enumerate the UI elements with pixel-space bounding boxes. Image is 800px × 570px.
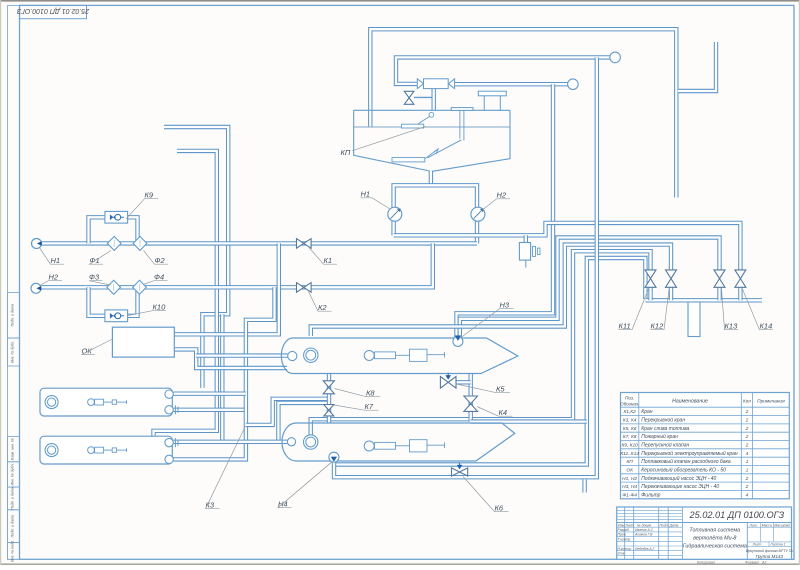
svg-text:А3: А3 (761, 561, 766, 565)
external fuel tank upper fuel sensor (88, 399, 95, 406)
upper tank port 2 (165, 406, 173, 414)
tank-1 filler double circle (304, 348, 318, 362)
filter Ф4 (133, 280, 147, 294)
svg-text:Инв. № дубл.: Инв. № дубл. (11, 463, 15, 485)
corner stamp box (20, 5, 87, 18)
wire refuel manifold (645, 298, 762, 302)
svg-text:К7, К8: К7, К8 (623, 434, 637, 440)
bypass valve К10 (105, 310, 128, 322)
svg-text:1: 1 (746, 467, 749, 473)
svg-text:Подп. и дата: Подп. и дата (11, 304, 15, 327)
tank-1 fuel sensor (364, 351, 374, 361)
svg-text:К11..К14: К11..К14 (620, 451, 639, 457)
wire tank vent line with drain stub (370, 29, 676, 197)
wire consumption tank outlet (429, 171, 433, 185)
svg-text:Н2: Н2 (497, 191, 507, 200)
svg-text:Н2: Н2 (49, 273, 59, 282)
svg-text:Листов 1: Листов 1 (769, 543, 785, 547)
svg-text:К9: К9 (145, 191, 154, 200)
external fuel tank upper (40, 388, 172, 416)
svg-text:К7: К7 (365, 402, 374, 411)
svg-text:Формат: Формат (745, 561, 759, 565)
svg-text:Взам. инв. №: Взам. инв. № (11, 438, 15, 460)
wire bypass loop K9 (89, 217, 138, 243)
title block (617, 507, 792, 559)
wire engine-2 feed hook to lower external tank (154, 151, 217, 436)
svg-text:КП: КП (341, 148, 351, 157)
filter Ф1 (107, 236, 121, 250)
svg-text:Н1: Н1 (51, 256, 61, 265)
svg-text:Примечания: Примечания (757, 399, 785, 405)
svg-text:Т.контр.: Т.контр. (618, 537, 632, 541)
tank hatch (451, 108, 473, 111)
wire branch to lower tank port line (220, 314, 224, 440)
lower tank port fitting (174, 438, 176, 447)
vent port circle 1 (610, 52, 621, 63)
wire drain valve K5 stub (456, 380, 471, 384)
wire vent mast hook (678, 42, 716, 91)
wire tank-2 filler line to valve K11 (311, 251, 651, 436)
svg-text:Фильтр: Фильтр (641, 492, 660, 498)
wire tank-1 filler line to valve K12 (311, 245, 671, 336)
svg-text:КП: КП (626, 459, 633, 465)
wire valve K4 line to drain riser (471, 419, 587, 423)
wire engine-1 feed hook to upper external tank (164, 127, 228, 388)
svg-text:Перепускной клапан: Перепускной клапан (641, 442, 689, 449)
valve K7 (324, 405, 334, 411)
wire valve K14 stem (738, 287, 742, 300)
upper tank port 1 (165, 390, 173, 398)
svg-text:Пров.: Пров. (618, 533, 627, 537)
svg-text:К3, К4: К3, К4 (623, 418, 637, 424)
svg-text:К2: К2 (318, 303, 327, 312)
svg-text:2: 2 (745, 434, 749, 440)
svg-text:Обознач.: Обознач. (620, 401, 639, 406)
tank internal pickup pipe (459, 110, 461, 138)
valve K1 (297, 239, 304, 249)
svg-text:Иванов А.С: Иванов А.С (635, 528, 654, 532)
svg-text:Перекачивающие насос ЭЦН - 40: Перекачивающие насос ЭЦН - 40 (641, 484, 719, 490)
pump N4 port (329, 452, 339, 462)
valve K4 (464, 396, 478, 404)
service tank 1 (upper bullet tank) (281, 338, 517, 374)
refuel port (688, 302, 700, 337)
svg-text:Ф2: Ф2 (155, 256, 166, 265)
svg-text:4: 4 (746, 451, 749, 457)
pump N3 port (453, 336, 463, 346)
wire pump N3 riser outer to float valve line (457, 84, 554, 339)
filler neck (478, 91, 506, 96)
svg-text:Н1: Н1 (361, 190, 371, 199)
svg-text:Масса: Масса (762, 523, 772, 527)
wire upper tank port-2 line (173, 408, 246, 412)
svg-text:Перекрывной кран: Перекрывной кран (641, 417, 685, 424)
wire float-valve stem into tank (432, 89, 436, 111)
flowmeter sensor (519, 243, 530, 261)
wire branch B below valve K7 (278, 403, 329, 443)
svg-text:Группа М143: Группа М143 (756, 554, 784, 559)
svg-text:Гидравлическая система: Гидравлическая система (683, 544, 747, 550)
wire valve K11 stem (648, 287, 652, 300)
svg-text:вертолёта Ми-8: вертолёта Ми-8 (693, 536, 736, 542)
svg-text:Дата: Дата (669, 523, 679, 527)
svg-text:Поз.: Поз. (625, 396, 634, 401)
svg-text:2: 2 (745, 476, 749, 482)
float valve KP float 2 (392, 158, 425, 162)
svg-text:Ф1: Ф1 (90, 256, 100, 265)
svg-text:Ф1-Ф4: Ф1-Ф4 (622, 492, 637, 498)
svg-text:Ф4: Ф4 (154, 273, 164, 282)
valve K2 (297, 283, 304, 293)
valve K8 (323, 381, 334, 388)
svg-text:Изм.: Изм. (618, 523, 625, 527)
service tank 2 (lower bullet tank) (282, 423, 515, 461)
kerosene heater OK (112, 327, 174, 357)
svg-text:К5, К6: К5, К6 (623, 426, 637, 432)
tank-2 filler double circle (304, 435, 318, 449)
svg-text:Лебедев А.Г: Лебедев А.Г (634, 547, 656, 551)
svg-text:Перекрывной электроуправляемый: Перекрывной электроуправляемый кран (641, 450, 738, 457)
svg-text:К9, К10: К9, К10 (621, 443, 638, 449)
svg-text:К10: К10 (153, 303, 167, 312)
svg-text:К12: К12 (651, 322, 665, 331)
svg-text:К1,К2: К1,К2 (623, 409, 636, 415)
svg-text:Н3: Н3 (500, 301, 510, 310)
svg-text:Н3, Н4: Н3, Н4 (622, 484, 637, 490)
valve К12 (666, 270, 677, 279)
svg-text:Пожарный кран: Пожарный кран (641, 433, 678, 440)
svg-text:Кран слива топлива: Кран слива топлива (641, 426, 689, 432)
consumption tank (354, 110, 430, 171)
wire fire valve stem K8-K7 (327, 374, 331, 423)
svg-text:Кол: Кол (743, 399, 751, 404)
svg-text:Топливная система: Топливная система (689, 528, 740, 534)
external fuel tank lower (40, 436, 172, 464)
svg-text:Лист: Лист (625, 523, 635, 527)
vent port circle 2 (568, 79, 579, 90)
wire upper tank port-1 line (173, 392, 246, 396)
wire booster pump loop (394, 185, 477, 243)
svg-text:Инв. № дубл.: Инв. № дубл. (11, 341, 15, 363)
wire bypass loop K10 (89, 287, 138, 316)
pump H2 left (31, 283, 41, 293)
svg-text:К4: К4 (499, 408, 508, 417)
svg-text:К11: К11 (619, 322, 631, 331)
wire vent valve stub (414, 96, 432, 98)
svg-text:К14: К14 (760, 322, 773, 331)
wire drain line R1 to refuel manifold riser (334, 258, 645, 465)
wire engine feed line H1 (42, 241, 477, 245)
lower tank port 1 (165, 438, 173, 446)
svg-text:Подп. и дата: Подп. и дата (11, 487, 15, 510)
svg-text:Поплавковый клапан расходного: Поплавковый клапан расходного бака (641, 458, 731, 465)
wire pump N4 drain line R2 to vent line (334, 57, 597, 477)
svg-text:К5: К5 (496, 385, 505, 394)
upper tank port fitting (174, 405, 176, 414)
valve К14 (735, 270, 746, 279)
svg-text:Ф3: Ф3 (89, 273, 100, 282)
wire float-valve supply to vent port 1 (396, 57, 610, 84)
wire heater OK feed from line H1 (174, 243, 278, 334)
pump H1 on loop (388, 207, 402, 221)
pump H1 left (32, 239, 42, 249)
svg-text:1: 1 (746, 459, 749, 465)
svg-text:Иркутский филиал МГТУ ГА: Иркутский филиал МГТУ ГА (746, 549, 793, 553)
svg-text:2: 2 (745, 426, 749, 432)
svg-text:Акимов Г.В: Акимов Г.В (634, 533, 653, 537)
drain valve K6 (452, 468, 460, 476)
svg-text:25.02.01 ДП 0100.ОГЗ: 25.02.01 ДП 0100.ОГЗ (688, 510, 784, 520)
svg-text:4: 4 (746, 492, 749, 498)
svg-text:2: 2 (745, 443, 749, 449)
svg-text:Наименование: Наименование (672, 399, 708, 405)
left margin boxes (7, 293, 19, 338)
svg-text:Масштаб: Масштаб (774, 523, 790, 527)
svg-text:Подп. и дата: Подп. и дата (11, 515, 15, 538)
svg-text:Лит.: Лит. (749, 523, 758, 527)
wire transfer link to fire-valve stem (246, 399, 329, 425)
external fuel tank lower fuel sensor (88, 447, 95, 454)
svg-text:2: 2 (745, 418, 749, 424)
tank-2 fuel sensor (364, 441, 374, 451)
filter Ф2 (133, 236, 147, 250)
pump H2 on loop (471, 207, 485, 221)
svg-text:2: 2 (745, 484, 749, 490)
wire pump N3 riser inner to valve K13 (460, 238, 720, 339)
svg-text:Подп.: Подп. (660, 523, 669, 527)
wire heater OK return line (174, 349, 287, 368)
filter Ф3 (107, 280, 121, 294)
svg-text:К13: К13 (725, 322, 739, 331)
wire valve K12 stem (669, 287, 673, 300)
svg-text:Подкачивающий насос ЭЦН - 40: Подкачивающий насос ЭЦН - 40 (641, 475, 716, 482)
wire line H2 branch down to lower tank port (173, 287, 275, 459)
svg-text:К8: К8 (366, 389, 375, 398)
wire engine feed line H2 with crossfeed (41, 243, 433, 287)
wire valve K4 stem (469, 374, 473, 422)
valve К11 (645, 270, 656, 279)
tank-2 port circle (287, 438, 295, 446)
svg-text:Разраб.: Разраб. (618, 528, 630, 532)
svg-text:К1: К1 (324, 256, 333, 265)
float valve KP actuator (424, 79, 449, 89)
svg-text:Н.контр.: Н.контр. (618, 547, 632, 551)
svg-text:Кран: Кран (641, 409, 653, 415)
parts list table (621, 393, 790, 499)
wire drain stub below R2 (582, 479, 586, 492)
bypass valve К9 (105, 211, 128, 223)
float valve KP float 1 (429, 112, 434, 117)
tank-1 port circle (288, 351, 297, 360)
svg-text:Лист: Лист (752, 543, 762, 547)
svg-text:Керосиновый обогреватель КО -: Керосиновый обогреватель КО - 50 (641, 466, 726, 473)
wire valve K13 stem (717, 287, 721, 300)
svg-text:2: 2 (745, 409, 749, 415)
svg-text:25.02.01 ДП 0100.ОГЗ: 25.02.01 ДП 0100.ОГЗ (16, 7, 90, 14)
wire flowmeter stem (524, 235, 528, 243)
wire float-valve overflow to vent port 2 (455, 82, 568, 86)
valve К13 (714, 270, 725, 279)
svg-text:Н1, Н2: Н1, Н2 (622, 476, 637, 482)
vent valve on tank (404, 91, 414, 98)
svg-text:Инв. № подл.: Инв. № подл. (11, 540, 15, 562)
wire pump outlet via flowmeter line to valve K14 (394, 223, 741, 270)
svg-text:Утв.: Утв. (618, 552, 626, 556)
svg-text:К6: К6 (495, 504, 504, 513)
wire tank-1 left port stub (196, 353, 287, 357)
drain valve K5 (440, 377, 448, 389)
wire lower tank port line to tank-2 port (173, 440, 288, 444)
svg-text:№ докум.: № докум. (637, 523, 652, 527)
lower tank port 2 (165, 455, 173, 463)
svg-text:Копировал: Копировал (697, 561, 715, 565)
